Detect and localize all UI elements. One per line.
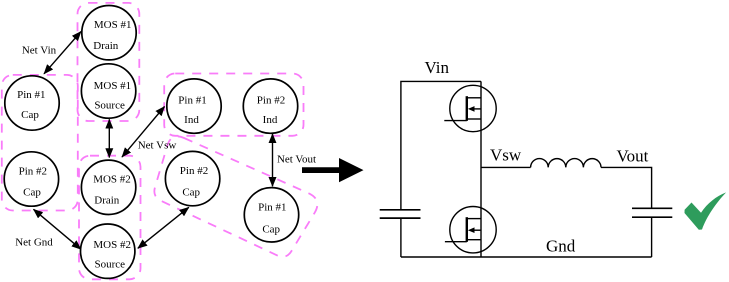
svg-text:Drain: Drain [93,40,119,52]
svg-text:Net Vin: Net Vin [22,45,57,57]
svg-text:Cap: Cap [23,187,41,199]
svg-text:Cap: Cap [262,224,280,236]
svg-text:Ind: Ind [263,114,278,126]
svg-text:Pin #1: Pin #1 [178,94,206,106]
svg-text:Pin #1: Pin #1 [258,202,286,214]
svg-text:Vsw: Vsw [490,145,522,164]
svg-text:MOS #2: MOS #2 [93,174,131,186]
svg-text:MOS #1: MOS #1 [94,80,132,92]
svg-text:Pin #1: Pin #1 [17,89,45,101]
svg-text:Vin: Vin [425,58,450,77]
svg-text:Pin #2: Pin #2 [19,166,47,178]
svg-text:Drain: Drain [94,194,120,206]
svg-text:Net Vsw: Net Vsw [138,139,177,151]
svg-text:Source: Source [95,259,126,271]
svg-text:Ind: Ind [184,114,199,126]
svg-text:Net Gnd: Net Gnd [15,237,53,249]
svg-text:MOS #2: MOS #2 [93,239,131,251]
svg-text:Cap: Cap [182,186,200,198]
svg-text:MOS #1: MOS #1 [94,19,132,31]
svg-text:Vout: Vout [617,146,649,165]
svg-text:Pin #2: Pin #2 [257,94,285,106]
svg-text:Gnd: Gnd [546,237,576,256]
svg-text:Source: Source [94,99,125,111]
svg-text:Cap: Cap [21,109,39,121]
svg-text:Net Vout: Net Vout [277,153,316,165]
svg-text:Pin #2: Pin #2 [180,165,208,177]
